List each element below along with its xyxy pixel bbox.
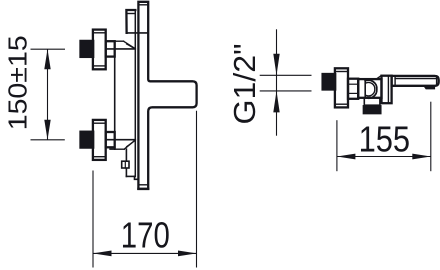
body left pipe line: [114, 41, 116, 149]
body front edge line: [134, 10, 136, 177]
arrow 155 left: [337, 154, 356, 160]
plate mid seam line: [127, 32, 149, 34]
top funnel cone: [115, 40, 124, 42]
arrow 150 up: [44, 49, 50, 69]
plate bottom cap lines: [138, 184, 148, 186]
top flange: [93, 30, 106, 70]
svg-text:150±15: 150±15: [2, 35, 32, 130]
arrow 170 right: [178, 251, 197, 257]
flange disc: [335, 68, 348, 107]
top connection: black eccentric: [81, 41, 94, 57]
collar: [382, 76, 392, 104]
dim 155 extension lines: [336, 120, 338, 171]
arrow 150 down: [44, 120, 50, 140]
arrow 170 left: [93, 251, 112, 257]
chamfer to spout: [376, 76, 381, 79]
neck nut: [348, 79, 358, 99]
bottom outlet black: [364, 106, 381, 113]
bottom outlet connector: [364, 98, 380, 105]
black wall connector: [323, 74, 336, 90]
cartridge arcs: [365, 80, 377, 98]
dim 155 line: [337, 156, 431, 158]
spout tip outlet: [424, 86, 435, 89]
arrow G1/2 bottom (points up): [273, 91, 279, 113]
svg-text:170: 170: [121, 214, 170, 255]
dim 150±15 line: [47, 49, 49, 140]
top hub nut: [106, 41, 115, 56]
riser column: [126, 10, 135, 33]
wall plate (left view backplate): [138, 2, 196, 189]
dim G1/2 line: [276, 29, 278, 135]
dim 170 extension lines: [92, 171, 94, 268]
arrow 155 right: [412, 154, 431, 160]
small fitting square: [122, 161, 129, 168]
dim 170 line: [93, 252, 197, 254]
bottom funnel cone: [106, 139, 136, 141]
spout (side view): [392, 76, 439, 86]
arrow G1/2 top (points down): [273, 54, 279, 76]
dim 150±15 ticks: [31, 48, 66, 50]
plate top cap line: [138, 4, 148, 6]
bottom flange: [93, 120, 106, 160]
svg-text:G1/2": G1/2": [228, 44, 262, 125]
dim G1/2 ticks: [260, 74, 312, 76]
svg-text:155: 155: [359, 118, 411, 159]
bottom connection: black eccentric: [81, 132, 94, 148]
bottom hub nut: [106, 132, 115, 147]
lower body box: [125, 149, 127, 176]
valve body: [358, 79, 381, 98]
